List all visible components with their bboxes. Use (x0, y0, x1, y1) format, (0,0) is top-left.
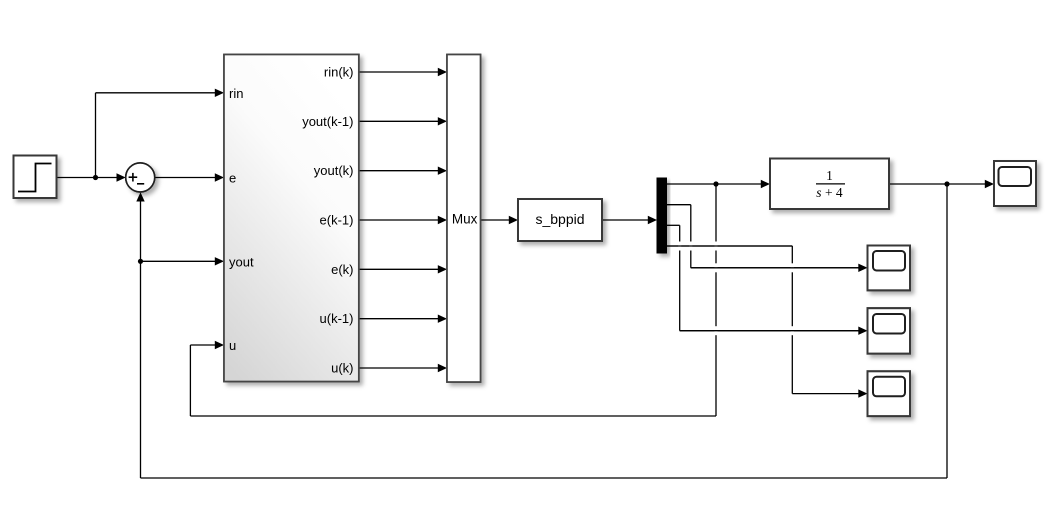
wire mux to s_bppid (481, 216, 519, 224)
wire demux out4 to scope4 (667, 246, 868, 398)
wire sum to e (155, 173, 224, 181)
crossing gaps (678, 242, 794, 336)
svg-text:e(k-1): e(k-1) (320, 213, 354, 228)
scope2 (868, 246, 911, 291)
wire demux out1 to transfer fn (667, 180, 771, 188)
wire bottom feedback from scope row (141, 184, 948, 478)
svg-text:e: e (229, 171, 236, 186)
wire step to sum (57, 173, 126, 181)
transfer fn block 1/(s+4) (770, 159, 889, 210)
svg-text:s + 4: s + 4 (816, 185, 843, 200)
wire demux out2 to scope2 (667, 205, 868, 272)
svg-text:s_bppid: s_bppid (535, 211, 584, 227)
scope3 (868, 308, 911, 353)
redraw horizontals over gaps (667, 246, 863, 331)
svg-text:rin: rin (229, 86, 243, 101)
svg-text:Mux: Mux (452, 212, 478, 227)
wire yout feedback vertical and branch (136, 192, 224, 478)
wire transfer fn to scope1 (889, 180, 994, 188)
svg-text:yout(k): yout(k) (314, 163, 354, 178)
wire branch up to rin (96, 89, 225, 178)
svg-text:1: 1 (826, 168, 833, 183)
s_bppid block (518, 199, 602, 241)
svg-text:e(k): e(k) (331, 262, 353, 277)
step source block (14, 156, 57, 199)
wires subsystem outputs to mux (359, 68, 447, 372)
svg-text:u(k-1): u(k-1) (320, 311, 354, 326)
wire s_bppid to demux (602, 216, 657, 224)
wire u feedback (190, 184, 716, 416)
svg-text:u: u (229, 338, 236, 353)
sum junction (126, 163, 155, 192)
wire demux out3 to scope3 (667, 225, 868, 335)
svg-text:yout(k-1): yout(k-1) (302, 114, 353, 129)
mux block (447, 55, 481, 383)
svg-text:yout: yout (229, 255, 254, 270)
scope4 (868, 371, 911, 416)
demux block (657, 178, 667, 253)
scope1 (994, 161, 1036, 206)
subsystem block (224, 55, 359, 382)
svg-text:u(k): u(k) (331, 361, 353, 376)
svg-text:rin(k): rin(k) (324, 65, 354, 80)
